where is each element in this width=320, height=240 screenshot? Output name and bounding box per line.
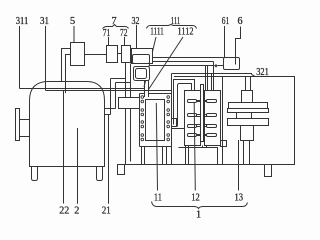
svg-text:31: 31 xyxy=(40,16,49,27)
svg-text:12: 12 xyxy=(191,192,200,203)
bridge pipe inner xyxy=(178,84,192,127)
box 6 xyxy=(224,58,240,70)
leader 72 xyxy=(124,37,126,46)
bridge pipe outer xyxy=(174,80,195,125)
box 71 xyxy=(107,46,118,63)
svg-text:5: 5 xyxy=(70,16,75,27)
bump block xyxy=(221,141,227,147)
box 6 partition xyxy=(235,58,237,65)
brace 7 xyxy=(103,25,129,29)
vessel top edge xyxy=(140,93,172,95)
vessel right wall / bridge outer xyxy=(171,74,173,147)
pedestal box S1 xyxy=(242,91,253,103)
svg-text:21: 21 xyxy=(102,206,111,217)
dip pipe inner xyxy=(66,55,71,94)
pipe bend vert outer xyxy=(115,83,117,109)
tank flange plate xyxy=(16,109,20,141)
pedestal legs xyxy=(244,141,250,165)
svg-text:1111: 1111 xyxy=(150,27,164,38)
leader 32 xyxy=(136,25,138,49)
pedestal bar2 xyxy=(228,119,269,126)
pipe 72 down right xyxy=(130,64,132,98)
pedestal pipe left xyxy=(245,77,247,91)
leader 321 xyxy=(172,74,255,76)
pipe bend vert inner xyxy=(110,79,112,115)
brace 1 xyxy=(152,202,248,209)
svg-text:71: 71 xyxy=(103,28,111,39)
left foot xyxy=(118,165,125,175)
leader 31 xyxy=(45,26,47,91)
horizontal pipe Hc xyxy=(150,65,215,67)
pipe 71 to 72 xyxy=(118,53,122,55)
right outer box 3 xyxy=(223,77,295,165)
pipe pair2 left xyxy=(211,74,213,91)
pedestal box S2 xyxy=(229,103,268,109)
pipe fitting to box6 xyxy=(218,65,224,67)
pedestal base box xyxy=(241,126,254,141)
vessel bolts left column xyxy=(141,96,144,141)
leader 2 xyxy=(77,128,79,204)
pipe B to vessel left xyxy=(144,81,146,98)
assembly bar right r4 xyxy=(205,135,207,136)
leader 71 xyxy=(108,37,110,46)
svg-text:72: 72 xyxy=(120,28,128,39)
leader 22 xyxy=(63,91,65,204)
vessel inner chamber xyxy=(146,100,165,141)
assembly bar left r1 xyxy=(188,100,197,103)
vessel 11 left wall xyxy=(139,94,141,147)
leader 11 xyxy=(156,103,157,191)
leader 12 xyxy=(194,103,195,191)
leader 311 xyxy=(19,26,21,89)
horizontal pipe Hb xyxy=(153,61,214,63)
pedestal pipe right xyxy=(250,77,252,91)
pipe jog h2 xyxy=(105,114,111,116)
brace 111 xyxy=(147,25,197,29)
svg-text:2: 2 xyxy=(74,206,79,217)
vessel bolts right column xyxy=(167,96,170,141)
pipe bend lower xyxy=(116,82,131,84)
leader 1112 diagonal xyxy=(149,37,184,90)
assembly legs xyxy=(186,146,207,165)
base line xyxy=(118,164,295,166)
assembly bar left r4 xyxy=(188,134,197,137)
right box foot xyxy=(265,165,272,177)
assembly bar right r1 xyxy=(205,101,207,102)
leader 1111 diagonal xyxy=(144,37,156,87)
pipe 5 to 71 xyxy=(85,54,107,56)
tank 2 body xyxy=(30,82,105,167)
assembly bar left r3 xyxy=(188,125,197,128)
long pipe 31 upper xyxy=(20,88,145,90)
box B inner xyxy=(136,69,147,79)
vessel leg left pair xyxy=(142,147,145,165)
box 72 xyxy=(122,46,131,63)
svg-text:1: 1 xyxy=(196,209,201,220)
pedestal connectors xyxy=(237,113,252,119)
vessel stub line xyxy=(172,128,185,130)
assembly bar left r2 xyxy=(188,114,197,117)
pipe below small box left xyxy=(125,109,127,165)
svg-text:311: 311 xyxy=(16,16,29,27)
svg-text:22: 22 xyxy=(59,206,69,217)
pipe B to vessel right xyxy=(148,81,150,98)
pedestal bar1 xyxy=(228,109,269,113)
leader 61 xyxy=(224,26,226,58)
horizontal pipe Ha xyxy=(153,57,224,59)
leader 6 xyxy=(236,27,241,58)
fitting valve xyxy=(215,64,218,67)
svg-text:13: 13 xyxy=(234,192,243,203)
assembly right box xyxy=(205,91,221,146)
dip pipe outer xyxy=(62,49,71,82)
assembly base plate xyxy=(179,148,218,165)
svg-text:32: 32 xyxy=(132,16,140,27)
vessel right stub xyxy=(172,119,177,127)
svg-text:1112: 1112 xyxy=(178,27,194,38)
long pipe 31 lower xyxy=(46,90,172,92)
pipe jog h1 xyxy=(105,108,116,110)
svg-text:61: 61 xyxy=(222,16,230,27)
pipe pair2 right xyxy=(213,62,215,91)
pipe pair1 left xyxy=(205,66,207,91)
vessel leg right pair xyxy=(163,147,172,165)
assembly bar right r2 xyxy=(205,115,207,117)
small box between tank and vessel xyxy=(119,98,140,109)
assembly bar right r3 xyxy=(205,125,207,127)
vessel bottom outer xyxy=(140,146,172,148)
pipe pair1 right xyxy=(207,66,209,91)
assembly left box xyxy=(185,91,201,146)
svg-text:11: 11 xyxy=(154,192,162,203)
pipe 72 down left xyxy=(125,63,127,98)
pump 5 box xyxy=(71,43,85,66)
right box top extension xyxy=(174,76,223,78)
leader 13 xyxy=(238,140,240,191)
leader 21 xyxy=(108,114,110,204)
box 32 outer xyxy=(132,49,153,64)
box 32 inner xyxy=(133,55,150,64)
pipe bend upper xyxy=(111,78,126,80)
pipe below small box right xyxy=(130,109,132,162)
assembly center column xyxy=(201,85,204,142)
tank foot right xyxy=(97,167,103,181)
svg-text:6: 6 xyxy=(237,16,242,27)
tank nozzle lines xyxy=(20,119,30,121)
tank foot left xyxy=(32,167,38,181)
leader 5 xyxy=(73,26,75,43)
box B outer xyxy=(134,67,150,81)
